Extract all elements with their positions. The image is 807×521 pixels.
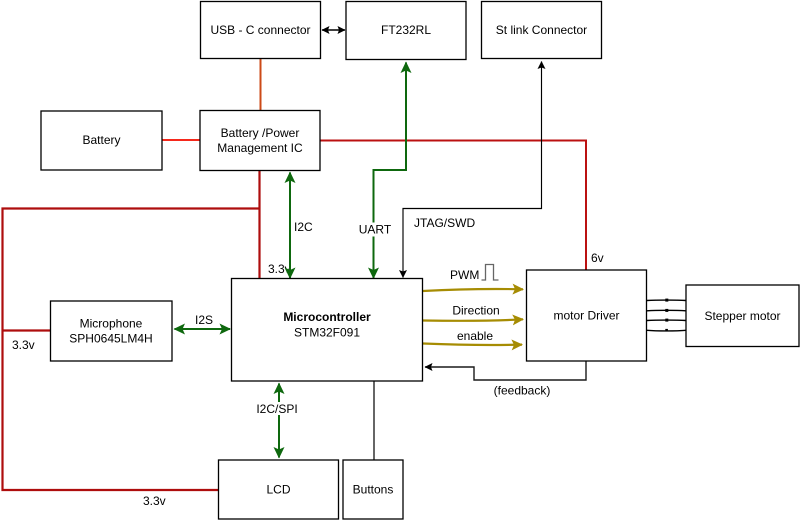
block Battery/Power Management IC (200, 111, 320, 171)
wire 3.3v branch to Microphone (2, 329, 50, 331)
wire I2S green Microphone to MCU (175, 328, 231, 330)
block FT232RL (346, 2, 466, 60)
wire UART green FT232RL to MCU (374, 63, 407, 279)
svg-text:I2S: I2S (195, 313, 213, 327)
label JTAG/SWD (414, 216, 475, 230)
label 3.3v left (12, 338, 35, 352)
svg-text:Microcontroller: Microcontroller (283, 310, 371, 324)
wire motor phase line 2 (647, 309, 686, 312)
block USB-C connector (201, 2, 321, 59)
label (feedback) (494, 384, 551, 398)
label 6v (591, 251, 604, 265)
svg-text:SPH0645LM4H: SPH0645LM4H (69, 332, 152, 346)
svg-text:FT232RL: FT232RL (381, 23, 431, 37)
block Buttons (343, 460, 403, 519)
wire MCU to Buttons (373, 381, 375, 460)
svg-text:LCD: LCD (266, 483, 290, 497)
svg-text:enable: enable (457, 329, 493, 343)
block St link Connector (482, 2, 602, 59)
svg-text:Direction: Direction (452, 304, 499, 318)
svg-text:3.3v: 3.3v (143, 494, 166, 508)
wire USB-C to FT232RL bidirectional arrow (322, 29, 345, 31)
wire 3.3v net (dark red) PMIC down to MCU top (258, 170, 260, 278)
wire Battery to Battery/Power Management IC (red) (162, 139, 200, 141)
label 3.3v bottom (143, 494, 166, 508)
svg-text:I2C/SPI: I2C/SPI (256, 402, 297, 416)
label 3.3v at MCU (268, 262, 291, 276)
wire I2C green PMIC to MCU (289, 173, 291, 279)
wire 6v Battery/Power IC to motor Driver (red) (321, 141, 587, 270)
block Stepper motor (686, 285, 799, 347)
wire VBUS USB-C to Battery/Power Management IC (orange) (260, 59, 262, 111)
block Battery (41, 111, 162, 170)
pulse symbol (482, 265, 499, 281)
wire 3.3v net branch left and down to LCD (3, 209, 260, 491)
svg-text:UART: UART (359, 223, 392, 237)
svg-text:I2C: I2C (294, 220, 313, 234)
svg-text:Stepper motor: Stepper motor (704, 309, 780, 323)
label I2C (294, 220, 313, 234)
svg-text:3.3v: 3.3v (268, 262, 291, 276)
label Direction (452, 304, 499, 318)
svg-text:St link Connector: St link Connector (496, 23, 587, 37)
svg-text:JTAG/SWD: JTAG/SWD (414, 216, 475, 230)
wire motor phase line 3 (647, 319, 686, 322)
block Microphone SPH0645LM4H (51, 301, 173, 361)
block motor Driver (527, 270, 647, 361)
block Microcontroller STM32F091 (232, 279, 423, 382)
wire motor phase line 1 (647, 299, 686, 302)
svg-text:(feedback): (feedback) (494, 384, 551, 398)
svg-text:Buttons: Buttons (353, 483, 394, 497)
block LCD (219, 460, 339, 519)
label enable (457, 329, 493, 343)
label UART (356, 223, 394, 237)
label I2S (195, 313, 213, 327)
wire enable yellow MCU to motor Driver (423, 344, 522, 346)
svg-text:PWM: PWM (450, 268, 479, 282)
svg-text:Battery /Power: Battery /Power (221, 126, 300, 140)
svg-text:USB - C connector: USB - C connector (210, 23, 310, 37)
wire JTAG/SWD St link to MCU (403, 62, 542, 278)
wire motor phase line 4 (647, 329, 686, 332)
svg-text:Microphone: Microphone (80, 317, 143, 331)
svg-text:3.3v: 3.3v (12, 338, 35, 352)
label PWM (450, 268, 479, 282)
label I2C/SPI (256, 402, 300, 416)
svg-text:motor Driver: motor Driver (553, 309, 619, 323)
svg-text:6v: 6v (591, 251, 604, 265)
wire feedback motor Driver to MCU (425, 361, 586, 380)
wire PWM yellow MCU to motor Driver (423, 289, 523, 291)
svg-text:STM32F091: STM32F091 (294, 326, 360, 340)
wire I2C/SPI green MCU to LCD (278, 384, 280, 458)
wire Direction yellow MCU to motor Driver (423, 319, 523, 321)
svg-text:Battery: Battery (82, 133, 120, 147)
svg-text:Management IC: Management IC (217, 141, 303, 155)
